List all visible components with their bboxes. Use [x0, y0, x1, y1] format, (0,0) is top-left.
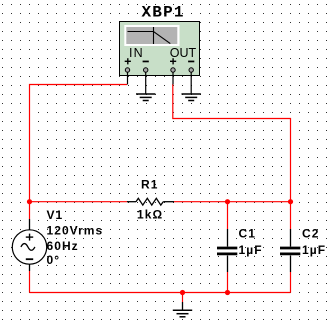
junction ground on bottom rail	[180, 290, 185, 295]
label 1kOhm	[137, 208, 163, 222]
capacitor C2	[280, 229, 300, 272]
XBP1 pin + (IN)	[125, 58, 131, 84]
ground at bottom rail	[173, 302, 192, 317]
wire node A to R1 left lead	[30, 201, 128, 203]
label 60Hz	[47, 239, 79, 253]
svg-text:XBP1: XBP1	[142, 4, 185, 22]
label C1 value 1uF	[239, 243, 263, 257]
svg-text:V1: V1	[47, 208, 64, 222]
wire C2 bottom to bottom rail	[290, 272, 292, 293]
wire from IN+ terminal left then down to node A	[30, 85, 128, 202]
label C2	[302, 227, 319, 241]
svg-text:60Hz: 60Hz	[47, 239, 79, 253]
label V1	[47, 208, 64, 222]
wire R1 right lead to node B	[174, 201, 291, 203]
junction C1 bottom on rail	[225, 290, 230, 295]
wire V1 bottom to bottom rail	[29, 271, 31, 293]
svg-text:1kΩ: 1kΩ	[137, 208, 163, 222]
ground under IN-	[136, 94, 155, 101]
label XBP1	[142, 4, 185, 22]
wire node A2 down to C1	[227, 202, 229, 229]
svg-text:1µF: 1µF	[302, 243, 326, 257]
wire C1 bottom to bottom rail	[227, 272, 229, 293]
bottom rail wire	[30, 292, 291, 294]
XBP1 pin - (OUT)	[188, 61, 194, 94]
junction node A2 (C1 top)	[225, 199, 230, 204]
svg-text:1µF: 1µF	[239, 243, 263, 257]
junction node B (C2 top)	[288, 199, 293, 204]
svg-text:C2: C2	[302, 227, 319, 241]
Bode plotter XBP1 body	[120, 22, 200, 76]
svg-text:OUT: OUT	[170, 46, 197, 60]
label 120Vrms	[47, 224, 104, 238]
ground under OUT-	[182, 94, 201, 101]
wire ground stub on bottom rail	[182, 293, 184, 303]
svg-text:0°: 0°	[47, 253, 61, 267]
label C2 value 1uF	[302, 243, 326, 257]
svg-text:IN: IN	[129, 46, 144, 60]
label 0deg	[47, 253, 61, 267]
svg-text:120Vrms: 120Vrms	[47, 224, 104, 238]
junction node A	[27, 199, 32, 204]
resistor R1	[127, 198, 174, 205]
wire from OUT+ terminal down right to node B	[173, 84, 291, 202]
XBP1 pin + (OUT)	[170, 58, 176, 84]
XBP1 pin - (IN)	[143, 61, 149, 94]
wire node A down to V1	[29, 202, 31, 219]
svg-text:C1: C1	[239, 227, 256, 241]
svg-text:R1: R1	[141, 178, 158, 192]
label R1	[141, 178, 158, 192]
source V1	[12, 219, 46, 271]
capacitor C1	[217, 229, 237, 272]
wire node B down to C2	[290, 202, 292, 229]
label C1	[239, 227, 256, 241]
